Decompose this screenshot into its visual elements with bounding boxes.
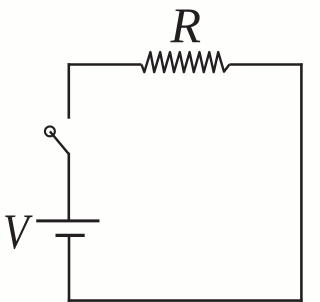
- label R (resistor value): [171, 0, 202, 50]
- switch S1 pivot circle (open contact): [45, 126, 55, 136]
- resistor R1 zigzag body: [142, 52, 230, 72]
- wire: top-right horizontal (resistor to top-right corner): [230, 63, 303, 66]
- switch S1 lever arm (open blade): [50, 131, 69, 153]
- wire: right vertical (top-right corner to bottom-right corner): [300, 63, 303, 302]
- battery V positive plate (long): [36, 219, 99, 222]
- label V (battery voltage): [3, 206, 29, 256]
- wire: top-left horizontal (corner to resistor): [68, 63, 142, 66]
- wire: bottom horizontal (bottom-right to bottom-left corner): [68, 299, 303, 302]
- wire: switch to battery positive plate: [68, 153, 71, 221]
- wire: left vertical upper (top-left corner down to switch contact): [68, 63, 71, 118]
- wire: battery negative to bottom-left corner: [68, 235, 71, 302]
- battery V negative plate (short): [56, 234, 85, 237]
